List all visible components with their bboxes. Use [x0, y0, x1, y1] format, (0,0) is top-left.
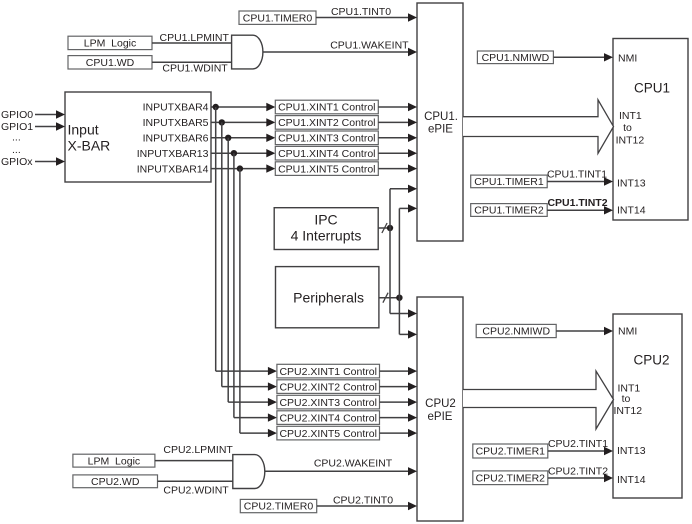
svg-text:CPU1.XINT3 Control: CPU1.XINT3 Control — [278, 133, 375, 145]
svg-text:CPU1.: CPU1. — [424, 111, 458, 123]
svg-text:CPU1.TINT1: CPU1.TINT1 — [547, 169, 607, 181]
svg-text:to: to — [622, 393, 631, 405]
svg-text:LPM Logic: LPM Logic — [88, 455, 141, 467]
svg-text:CPU2.TIMER1: CPU2.TIMER1 — [476, 446, 546, 458]
svg-text:CPU1.WDINT: CPU1.WDINT — [162, 63, 228, 75]
svg-text:LPM Logic: LPM Logic — [84, 38, 137, 50]
svg-text:CPU1: CPU1 — [634, 80, 670, 95]
svg-text:CPU2.TINT0: CPU2.TINT0 — [333, 494, 393, 506]
svg-text:NMI: NMI — [618, 326, 637, 338]
svg-text:CPU1.TIMER1: CPU1.TIMER1 — [474, 176, 544, 188]
svg-text:...: ... — [12, 144, 21, 156]
svg-text:GPIO0: GPIO0 — [1, 109, 33, 121]
svg-text:CPU1.TINT0: CPU1.TINT0 — [331, 6, 391, 18]
svg-text:CPU2.LPMINT: CPU2.LPMINT — [163, 444, 233, 456]
svg-text:CPU2.TIMER2: CPU2.TIMER2 — [476, 473, 546, 485]
svg-text:4 Interrupts: 4 Interrupts — [291, 227, 362, 243]
svg-text:CPU2.TIMER0: CPU2.TIMER0 — [244, 501, 314, 513]
svg-text:INT14: INT14 — [617, 474, 646, 486]
svg-text:INT1: INT1 — [619, 110, 642, 122]
svg-text:CPU1.XINT4 Control: CPU1.XINT4 Control — [278, 148, 375, 160]
svg-text:CPU1.TIMER2: CPU1.TIMER2 — [474, 205, 544, 217]
svg-text:...: ... — [12, 132, 21, 144]
svg-text:CPU1.LPMINT: CPU1.LPMINT — [160, 32, 230, 44]
svg-text:Peripherals: Peripherals — [293, 289, 364, 305]
svg-text:CPU1.WAKEINT: CPU1.WAKEINT — [330, 40, 409, 52]
svg-text:Input: Input — [68, 122, 99, 138]
svg-text:CPU2: CPU2 — [425, 398, 456, 410]
svg-text:INPUTXBAR5: INPUTXBAR5 — [143, 117, 209, 129]
svg-text:to: to — [623, 122, 632, 134]
svg-text:CPU2.WDINT: CPU2.WDINT — [163, 485, 229, 497]
svg-text:INT12: INT12 — [614, 405, 643, 417]
svg-text:CPU2.WD: CPU2.WD — [91, 476, 140, 488]
svg-text:CPU1.TINT2: CPU1.TINT2 — [547, 197, 607, 209]
svg-text:NMI: NMI — [618, 52, 637, 64]
svg-text:CPU2: CPU2 — [633, 353, 669, 368]
svg-text:CPU2.XINT2 Control: CPU2.XINT2 Control — [279, 381, 376, 393]
svg-text:CPU1.XINT1 Control: CPU1.XINT1 Control — [278, 102, 375, 114]
svg-text:ePIE: ePIE — [428, 123, 453, 135]
svg-text:CPU2.TINT2: CPU2.TINT2 — [548, 466, 608, 478]
svg-text:IPC: IPC — [314, 211, 337, 227]
svg-text:CPU2.WAKEINT: CPU2.WAKEINT — [314, 458, 393, 470]
svg-text:CPU1.TIMER0: CPU1.TIMER0 — [243, 12, 313, 24]
svg-text:CPU1.NMIWD: CPU1.NMIWD — [482, 52, 550, 64]
svg-text:INPUTXBAR6: INPUTXBAR6 — [143, 133, 209, 145]
svg-text:INT12: INT12 — [616, 135, 645, 147]
svg-text:X-BAR: X-BAR — [68, 138, 111, 154]
svg-text:CPU2.XINT5 Control: CPU2.XINT5 Control — [279, 428, 376, 440]
svg-text:INT13: INT13 — [617, 445, 646, 457]
svg-text:CPU2.XINT3 Control: CPU2.XINT3 Control — [279, 397, 376, 409]
svg-text:INPUTXBAR13: INPUTXBAR13 — [137, 148, 209, 160]
svg-text:CPU1.WD: CPU1.WD — [86, 57, 135, 69]
svg-text:CPU2.NMIWD: CPU2.NMIWD — [482, 326, 550, 338]
svg-text:CPU1.XINT5 Control: CPU1.XINT5 Control — [278, 163, 375, 175]
svg-text:INPUTXBAR4: INPUTXBAR4 — [143, 102, 209, 114]
svg-text:CPU2.XINT4 Control: CPU2.XINT4 Control — [279, 412, 376, 424]
svg-text:CPU2.TINT1: CPU2.TINT1 — [548, 438, 608, 450]
svg-text:INT14: INT14 — [617, 204, 646, 216]
svg-text:CPU1.XINT2 Control: CPU1.XINT2 Control — [278, 117, 375, 129]
svg-text:INT13: INT13 — [617, 177, 646, 189]
svg-text:GPIOx: GPIOx — [1, 156, 33, 168]
svg-text:ePIE: ePIE — [428, 411, 453, 423]
svg-text:CPU2.XINT1 Control: CPU2.XINT1 Control — [279, 366, 376, 378]
svg-text:INPUTXBAR14: INPUTXBAR14 — [137, 163, 209, 175]
